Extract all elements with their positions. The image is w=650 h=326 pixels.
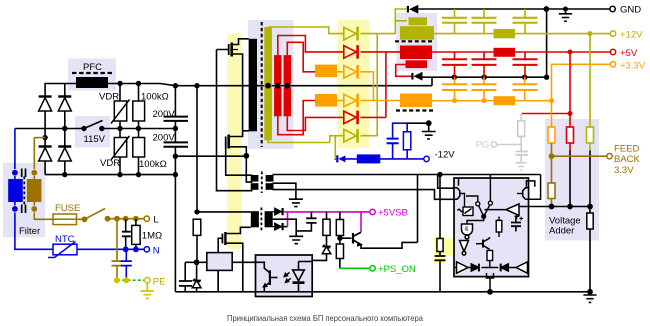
resistor R sense2 <box>336 220 343 236</box>
driver transformer T2 core dashed <box>261 172 263 194</box>
filter X-cap top <box>22 169 26 178</box>
switch S after fuse <box>82 216 139 222</box>
terminal GND <box>610 6 615 11</box>
bridge rectifier D3 <box>39 145 52 161</box>
magamp saturable core dashed <box>396 109 433 111</box>
svg-text:PFC: PFC <box>83 62 102 73</box>
earth symbol PE <box>141 283 154 298</box>
wire drive line A <box>273 174 541 176</box>
junction dots 3.3 <box>452 98 554 103</box>
driver transformer T2 right winding <box>266 175 274 182</box>
wire 12V filter caps <box>455 9 526 34</box>
magamp winding lower <box>315 94 337 107</box>
wire GND top rail <box>418 8 610 10</box>
wire -12 res branch <box>406 123 408 159</box>
wire 5V clamp feed <box>396 65 412 77</box>
opto light arrows <box>284 273 291 283</box>
wire 5V winding2b to diode2 <box>287 116 343 130</box>
wire 5V diode2 out <box>361 116 386 118</box>
resistor R sense1 <box>323 219 330 235</box>
highlight 115V box <box>75 116 110 148</box>
terminal +PS_ON <box>370 266 375 271</box>
wire 3.3 diode2 out <box>361 100 401 102</box>
wire bridge col2 top <box>64 84 66 96</box>
opto LED <box>293 262 313 292</box>
wire -12 gnd link <box>405 122 429 124</box>
PE node dots yellow <box>114 277 129 283</box>
wire 12V lower diode loop <box>268 34 377 143</box>
capacitor 200V lower <box>164 142 189 146</box>
PFC dashed core <box>72 72 112 74</box>
transformer T1 5V winding lower (red) <box>274 87 281 116</box>
bridge rectifier D2 <box>58 95 71 111</box>
zener D sb <box>322 245 330 254</box>
magenta 5VSB net <box>284 212 370 232</box>
junction IC common to rail <box>487 289 493 295</box>
wire startup node <box>185 212 255 292</box>
highlight PFC box <box>68 59 116 91</box>
blue -12V net <box>335 123 426 159</box>
ground symbol driver transformer <box>289 199 303 206</box>
wire magamp2 to diode2 <box>337 100 343 102</box>
IC mid resistor <box>496 220 502 232</box>
wire bridge bottoms <box>45 161 65 175</box>
resistor R PG <box>518 121 525 137</box>
diode D 5V lower <box>344 111 359 125</box>
wire 3.3 filter caps <box>455 77 525 101</box>
diode D clamp 5V <box>411 72 422 81</box>
svg-text:1MΩ: 1MΩ <box>142 231 162 242</box>
svg-text:+5V: +5V <box>620 48 638 59</box>
filter X-cap bottom <box>22 205 26 214</box>
resistor R feedback <box>548 183 555 199</box>
choke 12V winding small <box>409 17 428 25</box>
terminal -12V <box>424 156 429 161</box>
svg-text:+12V: +12V <box>620 30 643 41</box>
brown feedback column <box>552 143 607 207</box>
terminal +5V <box>610 49 615 54</box>
junction dots secondary gnd <box>452 6 593 295</box>
svg-text:VDR: VDR <box>100 158 120 169</box>
wire bridge col1 mid <box>44 111 46 161</box>
ground symbol 5VSB <box>289 236 303 243</box>
resistor R -12V <box>403 132 410 150</box>
IC timing cap <box>511 215 523 231</box>
IC emitter resistor <box>487 251 493 261</box>
wire VDR1 column <box>119 84 121 129</box>
olive 12V secondary net <box>268 9 610 143</box>
svg-text:Filter: Filter <box>19 226 40 237</box>
text layer <box>19 5 641 242</box>
resistor R ps-on <box>336 244 343 259</box>
PE earth wire green dashed <box>117 279 145 281</box>
wire 5V PG feed <box>522 113 570 115</box>
diode D GND top <box>407 5 419 14</box>
svg-text:115V: 115V <box>84 134 106 145</box>
resistor R adder 3.3 <box>548 127 555 143</box>
IC standby controller box <box>207 253 232 271</box>
wire bridge col2 mid <box>64 111 66 161</box>
capacitor C 12V x3 <box>442 18 538 23</box>
wire secondary gnd riser <box>423 77 433 86</box>
wire Q2 source line mid-tap <box>243 130 249 132</box>
wire -12V line <box>345 158 426 160</box>
highlight voltage adder box <box>545 119 599 241</box>
diode D 3.3V upper <box>344 65 359 79</box>
resistor startup HV <box>193 219 201 235</box>
svg-text:&: & <box>465 227 469 233</box>
IC right notch <box>523 188 529 200</box>
svg-text:NTC: NTC <box>55 234 75 245</box>
resistor 1M <box>132 225 140 244</box>
wire bottom rail <box>175 291 590 293</box>
terminal +5VSB <box>370 209 375 214</box>
inductor L -12V <box>357 154 381 163</box>
wire 5V winding1b to magamp2 <box>278 101 315 135</box>
svg-text:-12V: -12V <box>435 150 456 161</box>
standby transformer T3 secondary <box>265 211 273 227</box>
wire adder red drop <box>569 52 571 151</box>
wire sb lower stub <box>284 226 288 228</box>
adder dots <box>549 31 593 209</box>
transistor Q3 standby MOSFET <box>218 232 233 253</box>
wire cap-bottom to MOSFET source <box>175 155 246 157</box>
IC error comparator <box>485 204 520 219</box>
wire negative rail <box>45 174 177 176</box>
magamp winding upper <box>315 65 337 78</box>
wire 3.3 to terminal <box>552 64 611 100</box>
diode D 5V upper <box>344 45 359 59</box>
olive tap for -12V <box>334 136 336 159</box>
wire 5V line to terminal <box>432 51 610 53</box>
terminal N <box>144 247 149 252</box>
svg-text:BACK: BACK <box>614 154 641 165</box>
wire 5V diode1 out <box>361 51 401 53</box>
highlight Filter box <box>3 163 45 237</box>
wire VDR2 column <box>119 129 121 175</box>
highlight RC yellow patch <box>434 237 446 264</box>
IC steering flip-flop <box>466 178 492 224</box>
wire 5V winding2 to magamp <box>287 42 315 72</box>
svg-text:VDR: VDR <box>99 92 119 103</box>
transformer T1 center-tap dots <box>265 83 290 89</box>
wire brown line in <box>34 138 144 220</box>
wire -12 cap branch <box>393 123 405 159</box>
transformer T1 primary winding <box>249 39 257 132</box>
svg-text:GND: GND <box>620 5 641 16</box>
wire 5V filter caps <box>455 52 526 77</box>
transistor Q4 standby reg <box>353 232 361 245</box>
junction dead-time tap <box>437 172 442 177</box>
svg-text:+5VSB: +5VSB <box>378 208 408 219</box>
magamp output winding <box>400 94 432 108</box>
svg-text:+3.3V: +3.3V <box>620 60 646 71</box>
svg-text:100kΩ: 100kΩ <box>139 159 167 170</box>
wire RC deadtime column <box>439 175 441 292</box>
wire drive pulldown <box>417 175 419 243</box>
svg-text:PE: PE <box>153 277 166 288</box>
diode D sb lower <box>273 223 284 230</box>
junction dots primary <box>42 81 249 265</box>
resistor 100k lower <box>133 138 145 158</box>
ground symbol -12V <box>422 123 436 139</box>
transistor Q2 lower MOSFET <box>226 133 253 182</box>
IC dead-time AND gate <box>462 224 473 239</box>
wire 3.3 adder drop <box>551 101 553 127</box>
inductor PFC <box>76 77 108 88</box>
highlight main transformer strip <box>248 20 294 149</box>
wire standby HV feed <box>196 86 198 212</box>
svg-text:Adder: Adder <box>549 226 574 237</box>
highlight dead-time yellow patch <box>446 239 473 256</box>
IC driver transistor <box>476 237 490 251</box>
inductor L 12V out <box>494 29 516 38</box>
switch lever 115V <box>84 121 103 129</box>
wire primary neg drop <box>174 156 176 292</box>
wire 200V cap column <box>174 86 176 157</box>
terminal PE <box>145 278 150 283</box>
filter node dots <box>12 170 37 212</box>
capacitor C 5V x3 <box>442 59 538 65</box>
svg-text:L: L <box>153 214 158 225</box>
wire adder black drops <box>519 151 590 292</box>
diode D sb upper <box>273 208 284 215</box>
standby transformer T3 primary <box>251 211 259 227</box>
ground symbol bottom right <box>583 292 596 303</box>
ground symbol GND rail <box>559 9 572 21</box>
IC output loop wires <box>459 175 541 200</box>
capacitor C L-N black <box>122 232 131 237</box>
svg-text:PG: PG <box>476 140 490 151</box>
IC left notch <box>454 188 460 200</box>
wire 3.3 diode1 out <box>361 72 374 101</box>
terminal L <box>144 216 149 221</box>
capacitor C deadtime <box>435 256 446 260</box>
svg-text:FUSE: FUSE <box>55 203 80 214</box>
wire 12V winding top to diode <box>268 27 343 34</box>
fuse FUSE <box>53 214 77 225</box>
filter choke winding brown <box>27 179 42 202</box>
wire 5V winding1 to diode <box>278 36 343 56</box>
diode D -12V <box>336 155 345 162</box>
terminal +12V <box>610 31 615 36</box>
red 5V secondary net <box>278 36 610 135</box>
wire +310V top rail <box>45 84 432 96</box>
choke core dashed <box>395 40 435 42</box>
capacitor C -12V <box>387 139 399 144</box>
inductor L 5V out <box>494 48 516 57</box>
choke 5V winding small <box>406 60 428 68</box>
svg-text:FEED: FEED <box>614 144 639 155</box>
terminal FEEDBACK <box>607 154 612 159</box>
wire IC top stub <box>489 175 491 179</box>
diode D 12V upper <box>344 27 359 41</box>
Y-cap blue column <box>121 249 132 280</box>
choke 12V winding big <box>400 26 434 40</box>
wire blue line in <box>15 129 144 250</box>
wire magamp1 to diode <box>337 71 343 73</box>
transformer T1 core dashed <box>261 22 263 147</box>
IC oscillator box <box>458 207 474 216</box>
svg-text:200V: 200V <box>153 133 176 144</box>
capacitor C 5VSB <box>306 218 316 223</box>
resistor 100k upper <box>133 101 145 121</box>
capacitor 200V upper <box>164 117 189 121</box>
Y-cap brown column <box>112 219 123 281</box>
wire drive A into IC <box>438 175 454 189</box>
bridge rectifier D1 <box>39 95 52 111</box>
wire rail through opto <box>256 291 313 293</box>
capacitor C startup <box>179 281 192 286</box>
filter choke winding blue <box>8 179 23 202</box>
wire adder olive drop <box>589 34 591 151</box>
wire R1 column <box>138 84 140 129</box>
wire 5V diode join <box>385 52 387 118</box>
green PS_ON wire <box>340 267 370 269</box>
feedback node dot <box>549 153 555 159</box>
transformer T1 5V winding upper (red) <box>274 55 281 84</box>
NTC thermistor <box>48 242 77 258</box>
terminal PG <box>491 142 496 147</box>
standby transformer T3 core dashed <box>260 208 262 232</box>
IC dead-time buffer triangle <box>460 239 469 255</box>
secondary black wires <box>175 9 610 292</box>
wires layer <box>15 84 432 292</box>
wire box bottom <box>217 270 219 291</box>
varistor VDR1 <box>111 100 130 124</box>
filter choke core dashed <box>23 177 25 205</box>
diode D 3.3V lower <box>344 94 359 108</box>
highlight rectifier diode yellow strip <box>338 20 369 149</box>
svg-text:100kΩ: 100kΩ <box>141 92 169 103</box>
highlight output choke box <box>397 13 438 71</box>
resistor R adder 5 <box>567 127 574 143</box>
wire 12V diode out <box>361 9 408 34</box>
zener D startup <box>192 279 201 288</box>
driver transformer T2 left windings <box>251 175 259 182</box>
standby regulation chain <box>312 212 418 268</box>
opto phototransistor <box>256 262 278 292</box>
bridge rectifier D4 <box>58 145 71 161</box>
svg-text:3.3V: 3.3V <box>614 165 634 176</box>
choke 5V winding big <box>400 46 432 60</box>
wire 3.3 line out <box>432 100 552 102</box>
transistor Q1 upper MOSFET <box>217 39 253 191</box>
transformer T1 12V winding (olive) <box>264 27 272 140</box>
wire gnd bus to top <box>432 9 547 77</box>
orange 3.3V net <box>337 64 610 127</box>
wire olive tap to -12 diode <box>335 158 337 160</box>
wire drive line B <box>273 190 455 200</box>
resistor R adder 12 <box>587 127 594 143</box>
svg-text:200V: 200V <box>153 109 176 120</box>
svg-text:+PS_ON: +PS_ON <box>378 264 416 275</box>
wire R2 column <box>138 129 140 175</box>
inductor L 3.3V out <box>494 96 516 105</box>
wire drive gnd branch <box>273 183 296 199</box>
wire 12V to +12 terminal <box>434 33 610 35</box>
highlight MOSFET yellow strip <box>228 33 242 249</box>
resistor R adder out <box>587 213 593 229</box>
blue N dots <box>123 246 139 252</box>
wire 115V switch line <box>15 128 176 130</box>
terminal +3.3V <box>610 62 615 67</box>
varistor VDR2 <box>111 136 130 160</box>
svg-text:N: N <box>153 246 160 257</box>
resistor R deadtime <box>437 239 443 252</box>
capacitor C 3.3V x3 <box>442 84 538 90</box>
IC output stage row <box>454 262 529 292</box>
svg-text:Принципиальная схема БП персон: Принципиальная схема БП персонального ко… <box>227 313 423 323</box>
diode D 12V lower <box>344 129 359 143</box>
